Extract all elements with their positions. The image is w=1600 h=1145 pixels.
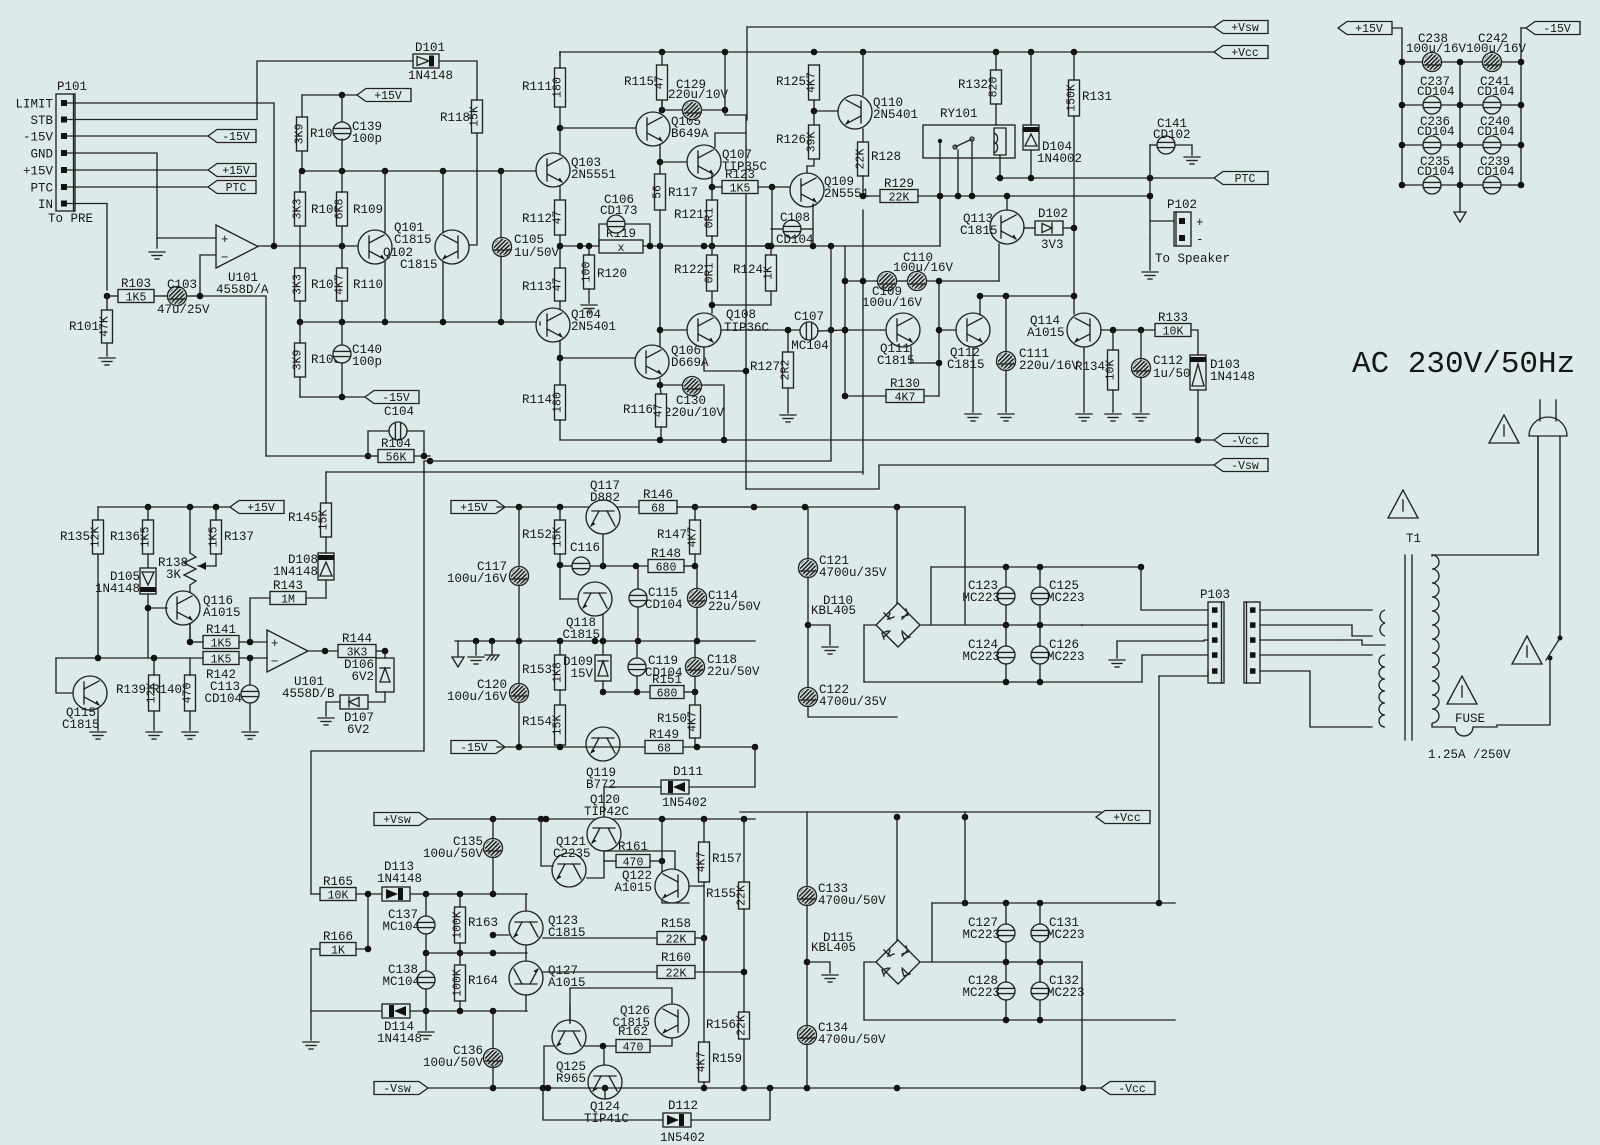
svg-text:CD104: CD104 <box>645 598 683 612</box>
wire <box>1071 225 1078 232</box>
wire <box>559 745 561 747</box>
wire <box>200 296 266 456</box>
wire <box>67 204 107 291</box>
wire <box>156 238 158 248</box>
transistor Q120 <box>587 817 621 851</box>
wire <box>560 245 599 247</box>
capacitor C112 <box>1132 354 1199 381</box>
transistor Q106 <box>635 344 709 379</box>
svg-text:R140: R140 <box>152 683 182 697</box>
svg-text:MC223: MC223 <box>962 591 1000 605</box>
resistor R152 <box>522 520 566 554</box>
wire <box>806 812 808 887</box>
resistor R119 <box>599 227 643 255</box>
svg-text:R118: R118 <box>440 111 470 125</box>
wire <box>516 504 523 511</box>
svg-text:1N4148: 1N4148 <box>95 582 140 596</box>
svg-text:+: + <box>1196 216 1204 230</box>
wire <box>657 327 664 334</box>
svg-text:R132: R132 <box>958 78 988 92</box>
wire <box>425 989 427 1011</box>
wire <box>200 255 216 296</box>
svg-text:R112: R112 <box>522 212 552 226</box>
wire <box>67 153 216 238</box>
net flag -Vsw <box>374 1082 428 1097</box>
wire <box>939 141 941 196</box>
svg-text:R109: R109 <box>353 203 383 217</box>
svg-text:FUSE: FUSE <box>1455 712 1485 726</box>
wire <box>602 681 604 692</box>
wire <box>695 937 704 939</box>
svg-text:100u/16V: 100u/16V <box>893 261 954 275</box>
svg-text:PTC: PTC <box>226 182 247 195</box>
svg-text:MC223: MC223 <box>962 650 1000 664</box>
ground arrow <box>1454 212 1466 222</box>
wire <box>459 1001 461 1011</box>
wire <box>425 1011 427 1030</box>
transistor Q107 <box>687 145 767 179</box>
wire <box>325 472 327 503</box>
svg-text:LIMIT: LIMIT <box>15 98 53 112</box>
ground <box>1133 414 1149 421</box>
wire <box>423 950 430 957</box>
svg-text:1K5: 1K5 <box>730 183 751 196</box>
svg-text:AC 230V/50Hz: AC 230V/50Hz <box>1352 347 1575 382</box>
svg-text:15K: 15K <box>552 715 565 736</box>
svg-text:+15V: +15V <box>247 502 275 515</box>
resistor R130 <box>886 377 924 405</box>
svg-text:1u/50V: 1u/50V <box>514 246 560 260</box>
wire <box>365 946 372 953</box>
svg-text:To Speaker: To Speaker <box>1155 252 1230 266</box>
svg-text:1N4002: 1N4002 <box>1037 152 1082 166</box>
resistor R145 <box>288 503 332 537</box>
svg-text:R126: R126 <box>776 133 806 147</box>
capacitor C236 <box>1417 115 1455 154</box>
wire <box>559 301 561 322</box>
wire <box>500 171 502 238</box>
svg-text:R152: R152 <box>522 528 552 542</box>
transistor Q104 <box>536 308 616 342</box>
resistor R101 <box>69 310 113 343</box>
wire <box>807 962 830 973</box>
wire <box>473 638 480 645</box>
wire <box>911 347 939 363</box>
wire <box>518 507 520 567</box>
wire <box>689 747 755 787</box>
resistor R114 <box>522 385 566 420</box>
wire <box>1005 903 1007 924</box>
wire <box>475 641 477 655</box>
transistor Q126 <box>655 1004 689 1038</box>
wire <box>301 151 303 171</box>
svg-text:R117: R117 <box>668 186 698 200</box>
wire P103 link <box>1158 676 1160 903</box>
wire <box>604 851 675 869</box>
wire <box>1003 679 1010 686</box>
wire <box>660 329 687 331</box>
capacitor C103 <box>157 278 210 317</box>
wire <box>560 598 578 600</box>
resistor R164 <box>452 965 499 1001</box>
wire <box>67 61 413 120</box>
svg-text:CD104: CD104 <box>776 233 814 247</box>
capacitor C132 <box>1031 974 1085 1000</box>
wire <box>964 507 966 625</box>
capacitor C137 <box>382 908 435 934</box>
svg-text:56: 56 <box>652 185 665 199</box>
resistor R129 <box>880 177 918 205</box>
svg-text:4700u/50V: 4700u/50V <box>818 894 886 908</box>
wire <box>459 943 461 965</box>
ground <box>242 732 258 739</box>
resistor R157 <box>696 842 743 882</box>
net flag -15V <box>451 741 505 756</box>
wire <box>897 280 907 282</box>
wire <box>560 127 637 129</box>
wire <box>1005 567 1007 587</box>
svg-text:R158: R158 <box>661 917 691 931</box>
svg-text:+15V: +15V <box>222 165 250 178</box>
ground <box>1142 272 1158 279</box>
svg-text:D882: D882 <box>590 491 620 505</box>
svg-text:4K7: 4K7 <box>806 72 819 93</box>
svg-text:22u/50V: 22u/50V <box>708 600 761 614</box>
resistor R104 <box>378 437 414 465</box>
svg-text:R154: R154 <box>522 715 552 729</box>
capacitor C108 <box>783 220 801 238</box>
svg-text:R133: R133 <box>1158 311 1188 325</box>
capacitor C129 <box>668 78 729 120</box>
wire <box>701 385 724 440</box>
wire <box>864 962 876 1020</box>
svg-text:TIP42C: TIP42C <box>584 805 629 819</box>
wire <box>559 341 561 385</box>
resistor R124 <box>733 255 777 291</box>
svg-text:100u/16V: 100u/16V <box>447 572 508 586</box>
capacitor C235 <box>1417 155 1455 194</box>
wire <box>1392 28 1402 185</box>
wire <box>647 243 654 250</box>
svg-text:180: 180 <box>552 392 565 413</box>
svg-text:100u/16V: 100u/16V <box>447 690 508 704</box>
zener D109 <box>563 655 611 681</box>
wire <box>1149 145 1151 238</box>
wire <box>1402 144 1423 146</box>
wire <box>703 938 705 972</box>
wire <box>1150 144 1157 146</box>
ground <box>149 252 165 259</box>
wire <box>376 650 385 652</box>
wire <box>711 174 713 187</box>
svg-text:R144: R144 <box>342 632 372 646</box>
wire <box>1459 62 1461 212</box>
wire <box>1003 564 1010 571</box>
wire <box>603 1046 605 1065</box>
wire <box>689 885 704 887</box>
bus -15V <box>497 746 755 748</box>
wire <box>384 171 386 232</box>
svg-text:4700u/35V: 4700u/35V <box>819 695 887 709</box>
svg-text:TIP36C: TIP36C <box>724 321 769 335</box>
wire <box>659 210 661 245</box>
wire <box>1140 330 1142 359</box>
wire <box>924 395 939 397</box>
wire <box>570 988 672 1023</box>
wire <box>694 554 696 566</box>
wire <box>1112 390 1114 412</box>
resistor R155 <box>706 882 750 909</box>
wire <box>806 166 808 173</box>
wire <box>1501 104 1521 106</box>
svg-text:470: 470 <box>182 683 195 704</box>
svg-text:MC223: MC223 <box>962 986 1000 1000</box>
wire <box>721 329 799 331</box>
wire <box>299 171 301 192</box>
capacitor C127 <box>962 916 1015 942</box>
svg-text:CD102: CD102 <box>1153 128 1191 142</box>
transformer T1 primary winding <box>1432 555 1439 723</box>
wire <box>677 506 754 508</box>
net flag +Vcc <box>1096 811 1150 826</box>
wire <box>650 1038 672 1046</box>
svg-text:C107: C107 <box>794 310 824 324</box>
wire <box>657 437 664 444</box>
svg-text:12K: 12K <box>90 527 103 548</box>
svg-text:R163: R163 <box>468 916 498 930</box>
bus PTC <box>996 177 1214 179</box>
wire <box>311 1010 382 1012</box>
wire <box>863 195 880 197</box>
wire <box>97 554 99 658</box>
net flag +Vsw <box>374 813 428 828</box>
svg-text:R151: R151 <box>652 673 682 687</box>
wire -Vsw link <box>746 465 1214 489</box>
svg-text:-15V: -15V <box>382 392 410 405</box>
resistor R135 <box>60 520 104 554</box>
svg-text:R122: R122 <box>674 263 704 277</box>
wire <box>1005 1000 1007 1020</box>
svg-text:B772: B772 <box>586 778 616 792</box>
wire <box>845 395 886 397</box>
transformer T1 left winding lower <box>1379 655 1385 727</box>
wire <box>1039 942 1041 962</box>
svg-text:100u/16V: 100u/16V <box>1406 42 1467 56</box>
svg-text:100u/50V: 100u/50V <box>423 1056 484 1070</box>
svg-text:C1815: C1815 <box>400 258 438 272</box>
wire <box>1003 1017 1010 1024</box>
wire <box>660 427 662 440</box>
svg-text:47: 47 <box>552 278 565 292</box>
svg-text:3K3: 3K3 <box>292 199 305 220</box>
wire <box>147 507 149 520</box>
svg-text:-15V: -15V <box>222 131 250 144</box>
resistor R159 <box>696 1042 743 1082</box>
diode D107 <box>340 695 374 737</box>
svg-text:R162: R162 <box>618 1025 648 1039</box>
wire <box>842 393 849 400</box>
svg-text:68: 68 <box>657 743 671 756</box>
wire <box>442 262 444 322</box>
wire <box>306 597 326 599</box>
wire <box>743 1039 745 1088</box>
ground arrow <box>452 657 464 667</box>
wire <box>311 948 320 950</box>
resistor R143 <box>270 579 306 607</box>
wire <box>311 461 430 894</box>
svg-text:15K: 15K <box>318 510 331 531</box>
wire <box>711 187 713 200</box>
svg-text:1K5: 1K5 <box>211 638 232 651</box>
warning triangle <box>1447 676 1477 704</box>
svg-text:R156: R156 <box>706 1018 736 1032</box>
wire <box>153 658 155 675</box>
capacitor C118 <box>686 653 761 679</box>
wire <box>660 379 682 385</box>
resistor R162 <box>616 1025 650 1055</box>
ground <box>303 1042 319 1049</box>
wire <box>1039 605 1041 625</box>
svg-text:R134: R134 <box>1075 360 1105 374</box>
wire <box>600 1043 607 1050</box>
wire <box>107 295 118 297</box>
bus <box>932 902 1175 904</box>
svg-text:R114: R114 <box>522 393 552 407</box>
wire <box>1441 184 1460 186</box>
wire <box>557 125 564 132</box>
capacitor C121 <box>799 554 888 580</box>
wire <box>758 186 790 188</box>
capacitor C104 <box>389 422 407 440</box>
wire <box>1005 370 1007 412</box>
wire <box>804 959 811 966</box>
wire <box>492 1011 494 1050</box>
svg-text:1M: 1M <box>281 594 295 607</box>
net flag -Vcc <box>1101 1082 1155 1097</box>
svg-text:R131: R131 <box>1082 90 1112 104</box>
svg-text:R159: R159 <box>712 1052 742 1066</box>
svg-text:−: − <box>221 251 229 265</box>
wire <box>106 296 108 310</box>
svg-text:MC223: MC223 <box>962 928 1000 942</box>
wire <box>862 176 864 196</box>
wire <box>559 235 561 268</box>
wire <box>894 814 901 821</box>
wire <box>302 94 357 96</box>
power switch <box>1546 636 1563 661</box>
wire <box>559 507 561 520</box>
svg-text:R150: R150 <box>657 712 687 726</box>
resistor R147 <box>657 520 701 554</box>
wire <box>691 1088 770 1120</box>
relay RY101 <box>923 107 1015 158</box>
wire <box>423 1008 430 1015</box>
svg-text:C116: C116 <box>570 541 600 555</box>
wire <box>703 938 705 1042</box>
svg-text:2N5551: 2N5551 <box>571 168 616 182</box>
wire <box>1005 625 1007 646</box>
net flag +15V <box>208 164 256 179</box>
wire <box>1073 116 1075 228</box>
wire <box>382 648 389 655</box>
wire <box>56 657 203 659</box>
wire <box>1005 605 1007 625</box>
wire <box>557 355 564 362</box>
wire <box>709 184 716 191</box>
wire <box>1260 609 1372 611</box>
svg-text:R124: R124 <box>733 263 763 277</box>
wire <box>1150 220 1174 222</box>
wire <box>153 711 155 730</box>
wire <box>559 690 561 705</box>
wire <box>862 52 864 95</box>
svg-text:D669A: D669A <box>671 356 709 370</box>
wire <box>995 104 997 125</box>
wire <box>657 382 664 389</box>
transistor Q112 <box>956 313 990 347</box>
svg-text:4K7: 4K7 <box>696 1052 709 1073</box>
wire <box>587 851 604 878</box>
svg-text:10K: 10K <box>1105 360 1118 381</box>
svg-text:RY101: RY101 <box>940 107 978 121</box>
svg-text:4558D/A: 4558D/A <box>216 283 269 297</box>
capacitor C242 <box>1466 32 1527 72</box>
wire <box>410 1010 527 1012</box>
ground <box>99 358 115 365</box>
svg-text:3K: 3K <box>166 568 182 582</box>
wire <box>694 692 696 705</box>
svg-text:A1015: A1015 <box>203 606 241 620</box>
wire <box>1005 942 1007 962</box>
wire <box>311 893 320 895</box>
capacitor C140 <box>333 345 351 363</box>
wire <box>1003 622 1010 629</box>
svg-text:R165: R165 <box>323 875 353 889</box>
svg-text:220u/16V: 220u/16V <box>1019 359 1080 373</box>
ground <box>780 415 796 422</box>
resistor R126 <box>776 125 820 159</box>
wire <box>442 171 444 232</box>
wire <box>430 245 831 461</box>
wire <box>326 702 340 716</box>
wire <box>939 329 956 331</box>
ground <box>90 732 106 739</box>
net flag -Vsw <box>1214 459 1268 474</box>
wire <box>964 812 966 905</box>
resistor R115 <box>624 65 668 100</box>
svg-text:R147: R147 <box>657 528 687 542</box>
ground <box>1109 660 1125 667</box>
wire <box>368 701 385 703</box>
op-amp U101/B <box>267 630 308 672</box>
svg-text:1N4148: 1N4148 <box>273 565 318 579</box>
svg-text:-Vcc: -Vcc <box>1118 1083 1146 1096</box>
wire <box>426 952 527 954</box>
capacitor C113 <box>241 685 259 703</box>
capacitor C105 <box>493 233 560 260</box>
svg-text:C104: C104 <box>384 405 414 419</box>
svg-text:R129: R129 <box>884 177 914 191</box>
svg-text:R166: R166 <box>323 930 353 944</box>
wire <box>525 894 527 911</box>
wire <box>1039 664 1041 682</box>
warning triangle <box>1489 415 1519 443</box>
transistor Q113 <box>990 210 1024 244</box>
wire <box>1441 61 1460 63</box>
diode D104 <box>1023 125 1082 166</box>
wire <box>543 971 658 973</box>
svg-text:-: - <box>1196 233 1204 247</box>
